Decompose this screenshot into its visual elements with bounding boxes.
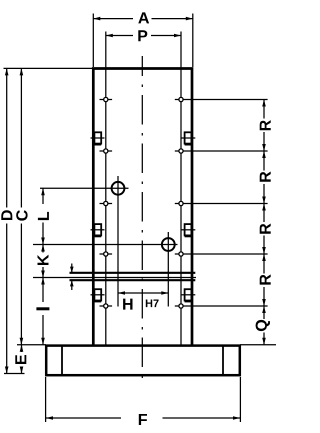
column body outline [93,69,192,346]
base outline [46,346,240,376]
label E [15,355,26,364]
bore U1 circle top [112,182,125,195]
plate thickness arrows [70,267,74,273]
label H [123,299,132,310]
base bottom extension line left [4,373,25,375]
dim E line [21,345,23,352]
dim H line [118,292,168,294]
left hole centerline [105,69,107,345]
label L [38,212,49,220]
bore U1 vertical centerline [117,176,119,307]
band mid extension line (K/I) [33,277,196,279]
base inner vertical line left [61,346,63,375]
dim R/Q vertical line [263,100,265,119]
label Q [256,320,270,331]
label K [38,255,49,265]
label D [1,210,12,220]
base inner vertical line right [222,346,224,375]
right hole ticks / R extension lines [175,100,268,307]
T-slot midline ticks left [91,138,105,295]
dim R2 arrows [262,151,266,158]
left hole ticks [100,100,113,307]
plate thickness dim lower tail [71,281,73,290]
dim K arrows [41,245,45,252]
dim Q arrows [262,306,266,313]
dim I arrows [41,278,45,285]
base top extension line left [17,344,46,346]
label I [36,307,49,310]
dim R3 arrows [262,204,266,211]
dim C arrows [20,68,24,75]
dim D line [6,68,8,207]
dim F arrows [46,416,53,420]
dim P arrows [106,34,113,38]
dim I line [42,278,44,303]
dim D arrows [5,68,9,75]
dim F line [46,417,121,419]
dim R1 arrows [262,100,266,107]
dim A arrows [93,17,100,21]
base top extension line right [240,344,276,346]
right hole centerline [180,69,182,345]
dim A extension lines [92,14,94,68]
dim P extension lines [105,32,107,69]
work-rest plate band top edge [70,272,196,274]
bore U2 circle lower [162,238,175,251]
label F [139,414,147,425]
dim F extension lines [45,377,47,422]
bore U2 vertical centerline [167,232,169,307]
column vertical centerline dash-dot [141,56,143,381]
dim P line [106,35,133,37]
dim K line [42,245,44,253]
top edge extension line to left dims [4,67,93,69]
T-slot squares right edge [185,132,192,300]
label R2 [260,172,271,182]
dim L arrows [41,188,45,195]
arrowheads [5,17,266,420]
label P [138,30,147,41]
bore U1 horizontal centerline [40,187,129,189]
dim A line [93,18,133,20]
dim L line [42,188,44,204]
T-slot midline ticks right [181,138,195,295]
label C [16,210,27,220]
small holes left column [104,97,108,308]
T-slot feet left [93,145,101,302]
dim C line [20,68,22,207]
plate thickness dim upper tail [71,264,73,273]
label R3 [260,224,271,234]
label R1 [260,120,271,130]
label A [138,12,149,23]
T-slot squares left edge [94,132,101,300]
small holes right column [179,97,183,308]
dim H arrows [118,291,125,295]
work-rest plate band bottom edge [70,279,196,281]
dim E arrows [20,345,24,352]
label H7 [146,300,159,308]
label R4 [260,274,271,284]
T-slot feet right [185,145,193,302]
bore U2 horizontal centerline [33,244,178,246]
dim R4 arrows [262,254,266,261]
